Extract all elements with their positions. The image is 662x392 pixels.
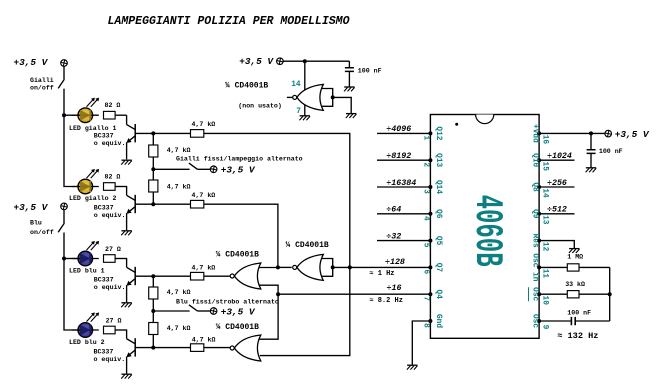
node Q1 base [151,131,155,135]
label LED giallo 2 [69,195,117,202]
svg-text:10: 10 [541,296,549,306]
wire inv-1Hz to Q2 [204,204,278,267]
label Blu on/off [30,220,54,236]
label &#247;512 [547,206,567,215]
label &#247;16384 [386,179,416,188]
ground Q2 emitter [121,231,132,235]
svg-text:BC337: BC337 [94,133,114,140]
wire gateB out [278,266,292,268]
svg-text:+3,5 V: +3,5 V [14,57,49,68]
svg-text:÷16: ÷16 [387,284,402,293]
LED giallo 2 [72,169,99,194]
svg-text:5: 5 [422,243,430,248]
svg-text:÷128: ÷128 [385,258,405,267]
label ÷128 [369,258,405,278]
label 1/4 CD4001B gate A [216,250,259,259]
wire pin14 [304,61,306,92]
capacitor 100nF Vdd [587,133,623,167]
resistor R 4,7kΩ (pull3) [149,287,191,299]
wire gateA input top [259,267,278,269]
title [108,14,351,28]
transistor Q4 BC337 [126,329,135,373]
svg-text:Q14: Q14 [434,180,442,194]
svg-text:≈ 132 Hz: ≈ 132 Hz [557,331,598,341]
node Vdd cap [589,131,593,135]
svg-text:4: 4 [422,216,430,221]
node 8.2Hz junction [276,292,280,296]
node Q3 base [151,274,155,278]
terminal +3,5V logic [239,56,283,67]
IC U2 4060B body [430,115,539,339]
svg-text:Q7: Q7 [434,263,442,273]
ground 100nF Vdd [586,168,597,172]
switch blu on/off [58,223,64,232]
svg-text:+3,5 V: +3,5 V [221,306,256,317]
label &#247;4096 [386,125,411,134]
svg-text:Osc: Osc [530,314,538,328]
label 1/4 CD4001B unused [225,81,268,90]
svg-text:BC337: BC337 [94,349,114,356]
svg-text:÷64: ÷64 [386,206,401,215]
IC right pins +Vdd Q10 Q8 Q9 Res Osc-in Osc Osc [529,124,549,330]
wire pin7 [304,103,306,116]
ground Q1 emitter [121,160,132,164]
svg-text:16: 16 [541,135,549,145]
svg-text:¼ CD4001B: ¼ CD4001B [286,241,329,250]
label &#247;64 [386,206,401,215]
svg-text:≈ 1 Hz: ≈ 1 Hz [369,270,394,278]
svg-text:Gialli: Gialli [30,77,54,84]
svg-text:27 Ω: 27 Ω [105,246,121,253]
svg-text:o equiv.: o equiv. [94,212,126,219]
svg-text:4,7 kΩ: 4,7 kΩ [192,336,216,343]
svg-text:+3,5 V: +3,5 V [14,202,49,213]
svg-text:1 MΩ: 1 MΩ [567,254,583,261]
node 1Hz rail [348,265,352,269]
resistor R 4,7kΩ (Q4 base) [191,336,216,351]
terminal +3,5V blu [14,202,68,213]
label gialli fissi/lampeggio [176,155,303,162]
svg-text:4,7 kΩ: 4,7 kΩ [167,289,191,296]
pin 7 label [296,108,301,116]
svg-text:7: 7 [422,296,430,301]
wire Gnd pin8 [412,321,430,365]
IC pin1 marker [455,123,458,126]
label LED blu 2 [69,339,105,346]
svg-text:6: 6 [422,270,430,275]
svg-text:4,7 kΩ: 4,7 kΩ [192,265,216,272]
wire 8.2Hz to pin7 [278,293,430,295]
svg-text:BC337: BC337 [94,277,114,284]
wire gateD in to ground [333,97,351,113]
node blu rail / LED3 [62,257,78,261]
wire output &#247;4096 [377,132,430,134]
wire [63,210,65,223]
svg-text:+Vdd: +Vdd [530,124,538,143]
svg-text:11: 11 [541,269,549,279]
resistor R 4,7kΩ (Q3 base) [191,265,216,281]
svg-text:82 Ω: 82 Ω [105,102,121,109]
transistor Q1 BC337 [126,115,135,159]
svg-text:Res: Res [530,234,538,248]
wire gateC out to Q4 [204,347,230,349]
resistor R 4,7kΩ (pull4) [149,323,191,335]
svg-text:LED blu 2: LED blu 2 [69,339,105,346]
svg-text:4,7 kΩ: 4,7 kΩ [167,325,191,332]
label BC337 Q3 [94,277,126,292]
svg-text:Q5: Q5 [434,236,442,246]
node gialli fissi [151,167,155,171]
svg-text:9: 9 [541,325,549,330]
wire output &#247;1024 [539,159,574,161]
terminal +3,5V gialli [14,57,68,68]
ground reset [569,249,580,253]
wire [153,168,189,170]
capacitor 100nF osc [539,309,610,325]
label BC337 Q1 [94,133,126,148]
svg-text:27 Ω: 27 Ω [106,317,122,324]
wire [153,310,189,312]
LED blu 2 [72,312,99,337]
resistor R 4,7kΩ (pull) [149,145,191,157]
svg-text:7: 7 [296,108,301,116]
wire output &#247;8192 [377,159,430,161]
wire [115,114,127,116]
resistor R 4,7kΩ (Q1 base) [191,121,216,137]
svg-text:≈ 8.2 Hz: ≈ 8.2 Hz [369,297,403,305]
svg-text:÷512: ÷512 [547,206,567,215]
resistor 82Ω (giallo1) [104,102,121,119]
wire Q4 base [135,347,190,349]
wire [152,299,154,323]
svg-text:100 nF: 100 nF [599,148,623,155]
svg-text:14: 14 [291,81,301,89]
op-amp gate D CD4001B (non usato) [293,84,335,110]
wire gialli rail [64,89,78,187]
svg-text:+3,5 V: +3,5 V [239,56,274,67]
svg-text:LAMPEGGIANTI POLIZIA PER MODEL: LAMPEGGIANTI POLIZIA PER MODELLISMO [108,14,351,28]
node gateB out / gateA in [276,265,280,269]
node Vdd gate [303,59,307,63]
wire osc rail [609,267,611,321]
svg-text:82 Ω: 82 Ω [105,173,121,180]
ground pin8 [407,365,418,369]
svg-text:13: 13 [541,215,549,225]
resistor 82Ω (giallo2) [104,173,121,190]
wire gateD out stub [287,96,293,98]
svg-text:o equiv.: o equiv. [94,284,126,291]
node blu fissi [151,309,155,313]
svg-text:on/off: on/off [30,229,54,236]
label &#247;32 [386,232,401,241]
svg-text:Osc: Osc [530,287,538,301]
svg-text:2: 2 [422,162,430,167]
wire [152,157,154,180]
svg-text:÷8192: ÷8192 [386,152,411,161]
svg-text:8: 8 [422,323,430,328]
svg-text:100 nF: 100 nF [567,309,591,316]
svg-text:÷256: ÷256 [547,179,567,188]
node Q2 base [151,202,155,206]
svg-text:Q10: Q10 [530,153,538,167]
svg-text:100 nF: 100 nF [358,67,382,74]
ground 100nF logic [344,87,355,91]
IC left pins Q12 Q13 Q14 Q6 Q5 Q7 Q4 Gnd [422,126,442,328]
svg-text:+3,5 V: +3,5 V [221,165,256,176]
svg-text:o equiv.: o equiv. [94,356,126,363]
label Gialli on/off [30,77,54,92]
svg-text:33 kΩ: 33 kΩ [565,281,585,288]
wire [152,133,154,145]
wire output &#247;256 [539,186,574,188]
node gialli rail / LED1 [62,113,78,117]
svg-text:÷4096: ÷4096 [386,125,411,134]
label BC337 Q4 [94,349,126,363]
svg-text:12: 12 [541,242,549,252]
label &#247;8192 [386,152,411,161]
wire output &#247;64 [377,213,430,215]
svg-text:Osc in: Osc in [530,253,538,281]
ground Q4 emitter [121,374,132,378]
svg-text:14: 14 [541,188,549,198]
switch blu fissi [189,305,210,311]
label ÷16 [369,284,403,305]
svg-text:(non usato): (non usato) [238,102,282,109]
wire gateB in to 1Hz [333,266,430,268]
wire 8.2Hz down to gateC [259,294,278,339]
switch gialli fissi [189,163,210,169]
label blu fissi/strobo [176,298,279,305]
wire [152,335,154,348]
terminal +3,5V Vdd [605,129,650,140]
label BC337 Q2 [94,205,126,220]
terminal +3,5V (blu fissi) [210,306,256,317]
transistor Q2 BC337 [126,186,135,230]
wire Q3 base [135,275,190,277]
label LED giallo 1 [69,125,117,132]
svg-text:4,7 kΩ: 4,7 kΩ [192,192,216,199]
svg-text:BC337: BC337 [94,205,114,212]
wire [115,329,127,331]
svg-text:¼ CD4001B: ¼ CD4001B [225,81,268,90]
op-amp gate C NOR CD4001B [230,335,261,361]
wire gateA input bottom [259,285,278,294]
label ≈132Hz [557,331,598,341]
resistor R 4,7kΩ (Q2 base) [191,192,216,208]
svg-text:÷1024: ÷1024 [547,152,572,161]
svg-text:LED blu 1: LED blu 1 [69,268,105,275]
wire [152,192,154,204]
LED giallo 1 [72,98,99,123]
wire gateA out to Q3 [204,275,230,277]
transistor Q3 BC337 [126,258,135,302]
svg-text:÷32: ÷32 [386,232,401,241]
ground Q3 emitter [121,303,132,307]
op-amp gate B NOR CD4001B (inverter) [293,254,335,280]
wire [115,186,127,188]
svg-text:¼ CD4001B: ¼ CD4001B [216,323,259,332]
switch gialli on/off [58,79,64,88]
svg-text:Q9: Q9 [530,209,538,219]
wire Q2 base [135,203,190,205]
label LED blu 1 [69,268,105,275]
wire [115,258,127,260]
svg-text:1: 1 [422,136,430,141]
label 1/4 CD4001B gate C [216,323,259,332]
svg-text:Gialli fissi/lampeggio alterna: Gialli fissi/lampeggio alternato [176,155,303,162]
resistor R 4,7kΩ (pull2) [149,180,191,192]
wire Vdd [539,132,605,134]
wire [152,276,154,287]
svg-text:LED giallo 1: LED giallo 1 [69,125,117,132]
capacitor 100nF logic [345,61,382,87]
label &#247;256 [547,179,567,188]
LED blu 1 [72,241,99,266]
svg-text:3: 3 [422,189,430,194]
svg-text:Blu fissi/strobo alternato: Blu fissi/strobo alternato [176,298,279,305]
node Q4 base [151,346,155,350]
wire output &#247;16384 [377,186,430,188]
svg-text:÷16384: ÷16384 [386,179,416,188]
ground pin7 [299,116,310,120]
label non usato [238,102,282,109]
wire 1Hz line to Q1 [204,133,350,355]
resistor 1MΩ [539,254,610,271]
svg-text:LED giallo 2: LED giallo 2 [69,195,117,202]
wire reset [539,241,574,249]
label 4060B [465,195,510,267]
svg-text:o equiv.: o equiv. [94,140,126,147]
pin 14 label [291,81,301,89]
svg-text:Q4: Q4 [434,290,442,300]
svg-text:15: 15 [541,162,549,172]
wire +3,5V rail [283,60,349,62]
svg-text:Q12: Q12 [434,126,442,140]
svg-text:4,7 kΩ: 4,7 kΩ [167,147,191,154]
svg-text:4060B: 4060B [465,195,510,267]
op-amp gate A NOR CD4001B [230,263,261,289]
terminal +3,5V (gialli fissi) [210,165,256,176]
resistor 27Ω (blu2) [104,317,122,334]
svg-text:Q8: Q8 [530,182,538,192]
resistor 27Ω (blu1) [104,246,121,262]
svg-text:Blu: Blu [30,220,42,227]
wire Q1 base [135,132,190,134]
svg-text:Q13: Q13 [434,153,442,167]
wire blu rail [64,233,78,331]
svg-text:4,7 kΩ: 4,7 kΩ [167,184,191,191]
svg-text:¼ CD4001B: ¼ CD4001B [216,250,259,259]
svg-text:on/off: on/off [30,85,54,92]
ground gateD input [346,114,357,118]
label 1/4 CD4001B gate B [286,241,329,250]
svg-text:Q6: Q6 [434,209,442,219]
label &#247;1024 [547,152,572,161]
wire [63,66,65,79]
svg-text:4,7 kΩ: 4,7 kΩ [192,121,216,128]
svg-text:+3,5 V: +3,5 V [615,129,650,140]
svg-text:Gnd: Gnd [434,314,442,328]
node osc rail [608,292,612,296]
wire output &#247;32 [377,240,430,242]
resistor 33kΩ [539,281,610,298]
wire output &#247;512 [539,213,574,215]
